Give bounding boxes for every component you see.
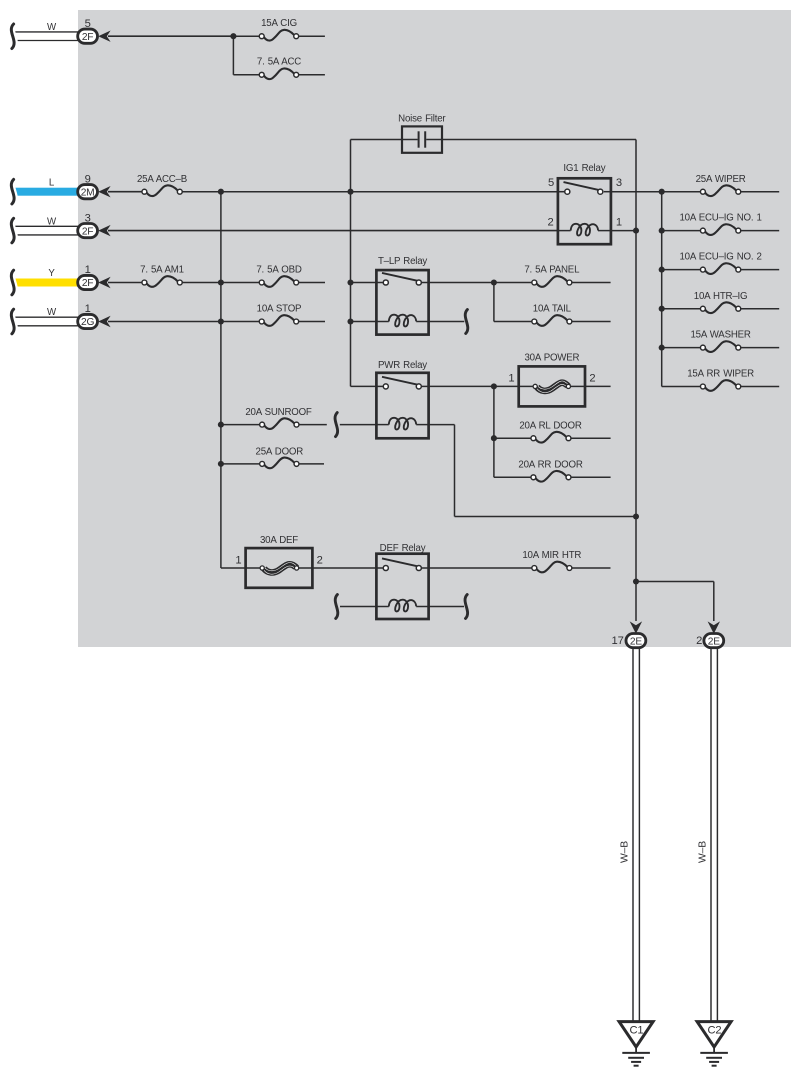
svg-text:1: 1 [508, 373, 514, 385]
node bus A sunroof row [218, 422, 224, 428]
node bus B row5 [347, 318, 353, 324]
svg-text:7. 5A ACC: 7. 5A ACC [257, 57, 301, 68]
svg-text:10A TAIL: 10A TAIL [533, 304, 572, 315]
fuse 10A TAIL [532, 304, 572, 326]
svg-text:2F: 2F [82, 226, 94, 237]
svg-text:W–B: W–B [620, 841, 631, 863]
svg-text:C2: C2 [707, 1025, 721, 1037]
wire after 25A WIPER [741, 191, 780, 193]
svg-text:T–LP Relay: T–LP Relay [378, 256, 427, 267]
svg-text:IG1 Relay: IG1 Relay [563, 163, 605, 174]
svg-text:1: 1 [235, 554, 241, 566]
svg-text:10A ECU–IG NO. 2: 10A ECU–IG NO. 2 [679, 252, 761, 263]
svg-text:Y: Y [48, 268, 55, 279]
ground C2 [697, 1022, 731, 1066]
wire bus C vertical [635, 140, 637, 622]
fuse 15A CIG [259, 18, 298, 41]
wire branch down to door fuses [494, 386, 531, 477]
wire noise filter left lead [351, 139, 403, 141]
wire after 10A MIR HTR [572, 567, 611, 569]
svg-text:25A ACC–B: 25A ACC–B [137, 174, 187, 185]
svg-text:C1: C1 [629, 1025, 643, 1037]
svg-text:25A WIPER: 25A WIPER [696, 174, 746, 185]
wire after 15A CIG [299, 35, 325, 37]
wire bus A vertical [221, 192, 246, 568]
svg-text:L: L [49, 177, 55, 188]
svg-text:W: W [47, 307, 57, 318]
svg-text:30A DEF: 30A DEF [260, 535, 298, 546]
node RL door row [491, 435, 497, 441]
svg-text:10A HTR–IG: 10A HTR–IG [694, 291, 748, 302]
fuse 15A RR WIPER [687, 369, 754, 391]
wire to PWR relay coil [340, 424, 377, 426]
wire bus D to 10A HTR-IG [662, 308, 701, 310]
arrow into 2E-17 [630, 621, 642, 633]
svg-text:7. 5A PANEL: 7. 5A PANEL [524, 265, 580, 276]
wire after 7.5A ACC [299, 74, 325, 76]
svg-text:20A SUNROOF: 20A SUNROOF [245, 407, 312, 418]
junction block panel [78, 10, 791, 647]
wire PWR coil out to bus C [429, 425, 636, 517]
svg-text:PWR Relay: PWR Relay [378, 360, 427, 371]
connector 2M pin 9 [11, 173, 110, 204]
svg-text:1: 1 [85, 303, 91, 315]
wire 2M-9 to 25A ACC-B [108, 191, 142, 193]
svg-text:10A STOP: 10A STOP [257, 304, 302, 315]
wire row2 to IG1 relay pin 5 [182, 191, 558, 193]
break squiggle DEF coil in [335, 595, 338, 619]
svg-text:5: 5 [85, 18, 91, 30]
wire after 15A RR WIPER [741, 386, 780, 388]
wire T-LP switch out to node [429, 282, 494, 284]
wire node to 20A RL DOOR [494, 437, 531, 439]
node T-LP out [491, 279, 497, 285]
svg-text:W: W [47, 216, 57, 227]
svg-text:3: 3 [616, 177, 622, 189]
connector 2E pin 2 [696, 634, 724, 648]
node PWR out [491, 383, 497, 389]
break squiggle DEF coil out [465, 595, 468, 619]
node bus C row3 [633, 228, 639, 234]
wire after 10A ECU-IG NO. 2 [741, 269, 780, 271]
fuse 25A ACC-B [137, 174, 187, 196]
break squiggle T-LP coil out [465, 310, 468, 334]
wire after 20A RR DOOR [571, 476, 611, 478]
svg-text:25A DOOR: 25A DOOR [256, 447, 304, 458]
wire after 30A POWER [585, 385, 611, 387]
wire bus D to 25A WIPER [662, 191, 701, 193]
node bus D washer row [659, 345, 665, 351]
svg-text:15A RR WIPER: 15A RR WIPER [687, 369, 754, 380]
svg-text:2F: 2F [82, 32, 94, 43]
fuse 10A MIR HTR [522, 550, 581, 572]
wire node to 30A POWER [494, 385, 519, 387]
wire DEF coil out [429, 606, 464, 608]
fuse 20A RL DOOR [519, 420, 581, 442]
fuse 7.5A AM1 [140, 265, 184, 287]
svg-text:2: 2 [589, 373, 595, 385]
wire 2F-1 to 7.5A AM1 [108, 282, 142, 284]
wire node to 7.5A PANEL [494, 282, 532, 284]
op T-LP Relay U2 [376, 256, 428, 335]
wire 2G-1 to 10A STOP [108, 321, 259, 323]
connector 2F pin 1 [11, 264, 110, 295]
wire bus D to 15A WASHER [662, 347, 701, 349]
svg-text:20A RR DOOR: 20A RR DOOR [518, 459, 582, 470]
wire bus B to T-LP relay coil [351, 321, 377, 323]
wire after 7.5A OBD [299, 282, 326, 284]
svg-text:15A WASHER: 15A WASHER [690, 330, 750, 341]
fuse 7.5A OBD [256, 265, 301, 287]
svg-text:17: 17 [612, 635, 624, 647]
node bus B row2 [347, 189, 353, 195]
svg-text:1: 1 [616, 217, 622, 229]
fuse 10A ECU-IG NO. 1 [679, 213, 761, 235]
wire after 10A TAIL [572, 321, 611, 323]
svg-text:1: 1 [85, 264, 91, 276]
node bus D wiper row [659, 189, 665, 195]
arrow into 2E-2 [708, 621, 720, 633]
wire W-B to ground C2 [711, 648, 717, 1022]
noise filter N1 [398, 113, 446, 153]
svg-text:2F: 2F [82, 278, 94, 289]
node bus D htr-ig row [659, 306, 665, 312]
svg-text:2G: 2G [81, 317, 94, 328]
node bus A row5 [218, 318, 224, 324]
ground C1 [619, 1022, 653, 1066]
wire PWR switch out to node [429, 385, 494, 387]
wire bus A to 25A DOOR [221, 463, 260, 465]
svg-text:30A POWER: 30A POWER [524, 352, 579, 363]
svg-text:7. 5A AM1: 7. 5A AM1 [140, 265, 184, 276]
connector 2G pin 1 [11, 303, 110, 334]
wire branch to 2E-2 [636, 582, 714, 622]
op IG1 Relay U1 [547, 163, 621, 244]
fuse 25A DOOR [256, 447, 304, 469]
svg-text:2M: 2M [81, 187, 95, 198]
svg-text:9: 9 [85, 173, 91, 185]
svg-text:3: 3 [85, 212, 91, 224]
wire J1 down to ACC branch [233, 36, 259, 75]
wire DEF coil in [340, 606, 376, 608]
wire 30A DEF to DEF relay [312, 567, 376, 569]
wire J1 to 15A CIG [233, 35, 259, 37]
wire after 25A DOOR [299, 463, 324, 465]
node bus A door row [218, 461, 224, 467]
node bus D ecu-ig1 row [659, 228, 665, 234]
wire bus B to T-LP relay switch [351, 282, 377, 284]
svg-text:2: 2 [696, 635, 702, 647]
svg-text:W–B: W–B [698, 841, 709, 863]
wire after 20A SUNROOF [299, 424, 327, 426]
wire after 15A WASHER [741, 347, 780, 349]
connector 2F pin 5 [11, 18, 110, 49]
fuse 20A RR DOOR [518, 459, 582, 481]
svg-text:10A MIR HTR: 10A MIR HTR [522, 550, 581, 561]
wire IG1 pin3 to bus D [611, 191, 662, 193]
node bus C branch row [633, 578, 639, 584]
wire 2F-3 to IG1 relay pin 2 [108, 230, 558, 232]
connector 2F pin 3 [11, 212, 110, 243]
fuse 15A WASHER [690, 330, 750, 352]
label W-B right [698, 841, 709, 863]
fusible link 30A POWER [508, 352, 595, 406]
svg-text:5: 5 [548, 177, 554, 189]
wire branch down to 10A TAIL [494, 283, 532, 322]
svg-text:2E: 2E [708, 636, 720, 647]
wire after 10A ECU-IG NO. 1 [741, 230, 780, 232]
node bus C pwr-out row [633, 513, 639, 519]
wire after 10A STOP [299, 321, 326, 323]
svg-text:DEF Relay: DEF Relay [380, 543, 426, 554]
node bus A top [218, 189, 224, 195]
svg-text:Noise Filter: Noise Filter [398, 113, 446, 124]
svg-text:2: 2 [547, 217, 553, 229]
node bus D ecu-ig2 row [659, 267, 665, 273]
fuse 10A HTR-IG [694, 291, 748, 313]
svg-text:7. 5A OBD: 7. 5A OBD [256, 265, 301, 276]
svg-text:20A RL DOOR: 20A RL DOOR [519, 420, 581, 431]
op DEF Relay U4 [376, 543, 428, 619]
svg-text:2E: 2E [630, 636, 642, 647]
fuse 10A ECU-IG NO. 2 [679, 252, 761, 274]
wire W-B to ground C1 [633, 648, 639, 1022]
svg-text:15A CIG: 15A CIG [261, 18, 297, 29]
wire AM1 to OBD [182, 282, 259, 284]
wire DEF switch out to 10A MIR HTR [429, 567, 532, 569]
label W-B left [620, 841, 631, 863]
wire row1 from 2F-5 to junction [108, 35, 233, 37]
wire bus D to 10A ECU-IG NO. 2 [662, 269, 701, 271]
wire T-LP coil out [429, 321, 465, 323]
fuse 20A SUNROOF [245, 407, 312, 429]
node J1 (CIG/ACC tap) [230, 33, 236, 39]
wire after 20A RL DOOR [571, 437, 611, 439]
fuse 7.5A PANEL [524, 265, 580, 287]
wire after 10A HTR-IG [741, 308, 780, 310]
svg-text:W: W [47, 22, 57, 33]
connector 2E pin 17 [612, 634, 646, 648]
node bus A row4 [218, 279, 224, 285]
wire noise filter right lead to bus C [442, 139, 636, 141]
break squiggle PWR coil in [335, 413, 338, 437]
node bus B row4 [347, 279, 353, 285]
op PWR Relay U3 [376, 360, 428, 438]
wire bus B vertical [351, 140, 377, 387]
wire IG1 pin1 to bus C [611, 230, 636, 232]
fuse 10A STOP [257, 304, 302, 326]
svg-text:10A ECU–IG NO. 1: 10A ECU–IG NO. 1 [679, 213, 761, 224]
fusible link 30A DEF [235, 535, 322, 588]
fuse 7.5A ACC [257, 57, 301, 80]
wire bus D vertical [662, 192, 701, 387]
fuse 25A WIPER [696, 174, 746, 196]
wire after 7.5A PANEL [572, 282, 611, 284]
svg-text:2: 2 [317, 554, 323, 566]
wire bus A to 20A SUNROOF [221, 424, 260, 426]
wire bus D to 10A ECU-IG NO. 1 [662, 230, 701, 232]
